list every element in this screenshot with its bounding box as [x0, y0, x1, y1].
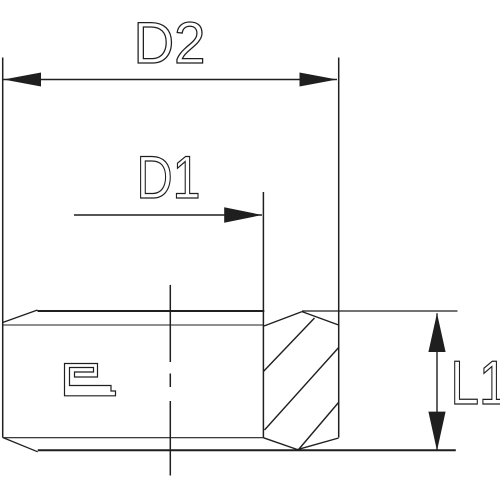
center line short dash [169, 374, 171, 388]
svg-text:D2: D2 [134, 11, 206, 76]
part inner top flat edge [3, 324, 263, 326]
dimension D1 line [74, 214, 262, 216]
part bottom silhouette edge + L1 bottom extension line [38, 449, 456, 451]
hexagon chamfer hatch line a [263, 318, 314, 372]
dimension D1 arrow [224, 207, 262, 223]
dimension D2 right arrow [300, 73, 338, 87]
center line upper long dash [169, 285, 171, 362]
hexagon top-left edge [264, 312, 302, 326]
extension line (D1) merged with hexagon left edge [262, 192, 264, 438]
dimension L1 bottom arrow [428, 412, 445, 451]
hexagon top-right edge [302, 312, 339, 325]
dimension D2 line [4, 79, 338, 81]
extension line right (D2) merged with hexagon right edge [338, 58, 340, 438]
hexagon chamfer hatch line b [265, 347, 339, 430]
part top chamfer edge [3, 310, 38, 323]
hexagon bottom-left edge [264, 438, 298, 450]
hexagon chamfer hatch line c [299, 403, 339, 450]
dimension L1 line [436, 313, 438, 450]
E stamp marking outer contour [65, 364, 116, 396]
part bottom chamfer edge [3, 438, 38, 452]
part top silhouette edge [38, 310, 265, 312]
svg-text:L1: L1 [451, 349, 500, 418]
extension line left (D2) merged with part left face [2, 58, 4, 438]
svg-text:D1: D1 [137, 144, 201, 211]
extension line top (L1) [302, 310, 458, 312]
hexagon bottom-right edge [298, 438, 339, 450]
dimension L1 top arrow [428, 313, 445, 352]
part inner bottom flat edge [3, 437, 264, 439]
dimension D2 left arrow [4, 73, 42, 87]
center line lower long dash [169, 401, 171, 476]
